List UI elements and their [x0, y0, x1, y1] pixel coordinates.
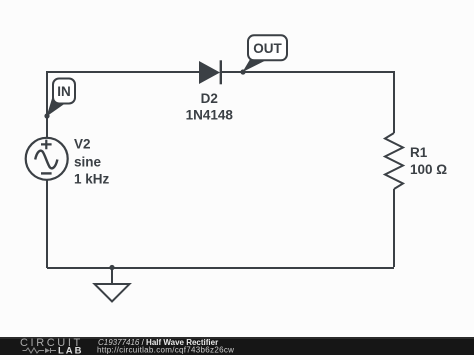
label V2 value: [74, 136, 110, 186]
label D2 value: [186, 91, 234, 123]
wire left (top corner through node IN to source V2): [46, 71, 48, 138]
footer bar: [0, 337, 474, 355]
svg-text:LAB: LAB: [58, 346, 84, 355]
diode D2: [199, 60, 221, 84]
CircuitLab logo circuit glyph (resistor + diode): [23, 348, 57, 353]
node IN flag: [47, 79, 76, 117]
node OUT junction dot: [240, 69, 245, 74]
svg-text:D2: D2: [201, 91, 218, 106]
ground: [95, 267, 130, 302]
svg-text:IN: IN: [57, 84, 71, 99]
wire top (left segment, node A to diode anode): [47, 71, 199, 73]
svg-text:OUT: OUT: [253, 41, 282, 56]
svg-text:R1: R1: [410, 145, 428, 160]
ground junction dot: [109, 265, 114, 270]
node OUT flag: [243, 35, 288, 72]
node IN junction dot: [44, 113, 49, 118]
svg-text:http://circuitlab.com/cqf743b6: http://circuitlab.com/cqf743b6z26cw: [97, 345, 234, 354]
wire right (top stub to resistor R1): [393, 71, 395, 133]
svg-text:V2: V2: [74, 136, 91, 151]
svg-text:100 Ω: 100 Ω: [410, 162, 447, 177]
svg-text:sine: sine: [74, 154, 102, 169]
wire bottom: [47, 267, 394, 269]
wire top (diode cathode to top-right corner): [221, 71, 394, 73]
resistor R1: [385, 133, 403, 189]
wire left (source V2 to bottom corner): [46, 180, 48, 268]
wire right (resistor R1 to bottom corner): [393, 189, 395, 267]
voltage source V2: [26, 138, 68, 180]
svg-text:1 kHz: 1 kHz: [74, 171, 110, 186]
svg-text:1N4148: 1N4148: [186, 108, 234, 123]
label R1 value: [410, 145, 447, 177]
